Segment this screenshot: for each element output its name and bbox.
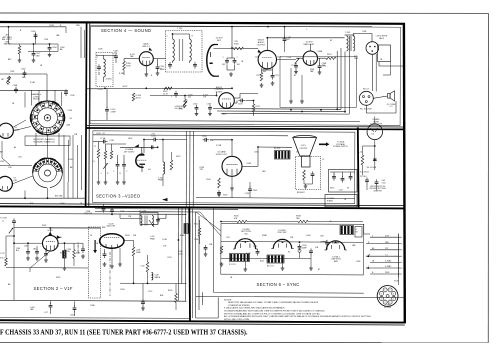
svg-text:2: 2 <box>389 302 390 304</box>
agc dashed box right <box>89 227 101 298</box>
junction dots right strip <box>374 145 376 147</box>
second small box below right box <box>325 195 357 207</box>
capacitor C140 <box>248 186 252 193</box>
capacitor C151a <box>35 249 39 256</box>
wire strip down to plug <box>398 278 400 286</box>
capacitor C1H8 <box>12 218 16 225</box>
wire V103 cath <box>234 102 237 104</box>
svg-text:B144: B144 <box>260 261 264 263</box>
divider above VIF and SYNC sections (double horizontal) <box>0 204 405 209</box>
sound section inner box <box>90 26 401 126</box>
wire to T106 box <box>120 217 140 219</box>
wire right strip bottom <box>366 184 368 190</box>
switch S1 terminal stubs <box>38 90 40 103</box>
ratio detector enclosure box <box>280 57 357 108</box>
wire video y147 rail <box>120 146 158 148</box>
wire <box>320 241 327 242</box>
svg-text:SECTION 4 — SOUND: SECTION 4 — SOUND <box>101 28 151 33</box>
svg-text:C1B1: C1B1 <box>254 152 259 154</box>
svg-text:B2 0.7%: B2 0.7% <box>267 266 274 268</box>
wire sound right bus <box>379 65 404 67</box>
wire V2 to S2 <box>12 176 32 184</box>
svg-text:C144: C144 <box>253 246 257 248</box>
box T106 vif discriminator <box>140 213 158 225</box>
notes text block <box>224 299 372 321</box>
wire V105 connections <box>309 44 311 51</box>
terminal strip rows <box>366 235 399 274</box>
tuner bottom wire <box>0 197 86 199</box>
svg-text:C163: C163 <box>255 57 259 59</box>
svg-text:4BBLA: 4BBLA <box>155 276 161 279</box>
svg-text:VOLTAGES MEASURED W1TH VACUUM: VOLTAGES MEASURED W1TH VACUUM TUBE VOLTM… <box>224 310 325 313</box>
svg-text:C169: C169 <box>238 103 243 105</box>
svg-text:B1: B1 <box>103 133 105 135</box>
svg-text:T 102: T 102 <box>177 28 183 30</box>
svg-text:L109: L109 <box>141 266 145 268</box>
wire <box>312 178 314 184</box>
svg-text:OUTPUT: OUTPUT <box>257 44 266 46</box>
ground CRT <box>304 184 308 188</box>
wire R165 to V104 grid <box>244 48 259 50</box>
tube V101 6AU6 sound IF <box>139 52 153 66</box>
svg-text:C1B2: C1B2 <box>194 239 198 241</box>
wire <box>175 303 177 311</box>
wire V109 chain down <box>133 256 135 283</box>
T102 secondary coil <box>190 39 192 61</box>
wire <box>74 312 76 316</box>
ground R tuner <box>18 58 22 62</box>
resistor R181 <box>73 250 76 259</box>
ground C163/C164 <box>229 72 233 76</box>
svg-text:VOL 2N1-B: VOL 2N1-B <box>360 172 369 174</box>
svg-text:6AL5 DET: 6AL5 DET <box>107 225 117 228</box>
svg-text:2: 2 <box>401 243 402 245</box>
svg-text:4: 4 <box>401 256 402 258</box>
capacitor C165 <box>195 105 199 112</box>
capacitor C150a <box>26 249 30 256</box>
arrow right of V108 <box>57 235 61 239</box>
svg-text:R1B2: R1B2 <box>42 225 46 227</box>
sound B+ vertical bus wires <box>336 51 338 109</box>
wire to 2nd video tube <box>210 139 232 141</box>
svg-text:BB7: BB7 <box>8 59 11 61</box>
resistor R171 <box>252 104 255 112</box>
CRT socket dashed box <box>296 157 321 190</box>
capacitor C150 <box>156 64 160 71</box>
wire V103 out right <box>246 100 254 102</box>
svg-text:POWER SUPPLY: POWER SUPPLY <box>333 146 349 148</box>
svg-text:W: W <box>356 231 358 233</box>
resistor R140 damping <box>170 160 173 170</box>
ground V107 <box>230 186 234 190</box>
capacitor C152a <box>44 251 48 258</box>
resistor R1B3 <box>104 151 107 159</box>
resistor R165 <box>234 47 244 50</box>
capacitor C148 tuner <box>34 32 38 39</box>
bus wire 3 <box>221 112 349 115</box>
arrow in dashed box <box>93 240 97 253</box>
electrolytic C163 <box>225 58 229 65</box>
cap in T106 <box>156 217 160 224</box>
capacitor C167 <box>105 107 109 114</box>
junction dots sound <box>231 47 233 49</box>
plate arrow above V108 <box>48 232 52 236</box>
fine tuning wire <box>0 73 47 75</box>
AGC keyed hatch block <box>184 224 190 234</box>
svg-text:7: 7 <box>401 274 402 276</box>
label C151 cap <box>174 91 178 98</box>
capacitor C148 <box>114 53 118 60</box>
volume pot R168 <box>183 101 187 107</box>
svg-text:L-1B1: L-1B1 <box>109 140 114 142</box>
svg-text:3: 3 <box>401 250 402 252</box>
wire plate V106 up <box>143 140 145 154</box>
cap in right box 3 <box>349 174 353 181</box>
coil2 in T106 <box>152 216 154 226</box>
ground C149 <box>48 53 52 57</box>
tube V107 2nd video <box>222 156 242 176</box>
svg-text:C172: C172 <box>291 65 296 67</box>
junction dot top rail <box>231 26 233 28</box>
video section right border (thick vertical) <box>357 128 360 208</box>
svg-text:RATIO DET: RATIO DET <box>304 43 316 46</box>
svg-text:C1B2: C1B2 <box>10 71 14 73</box>
svg-text:7: 7 <box>389 290 390 292</box>
wire plate V101 right <box>153 58 166 60</box>
deflection socket circle <box>367 124 383 140</box>
tube V2 mixer at left edge <box>0 176 12 191</box>
cap C158b <box>141 299 145 306</box>
wire jack down second <box>375 54 377 92</box>
svg-text:5 O: 5 O <box>389 106 393 108</box>
wire det to vol pot <box>150 95 217 97</box>
wire <box>50 301 52 304</box>
wire V104 cathode <box>261 68 263 72</box>
svg-text:C166: C166 <box>207 104 212 106</box>
resistor R tuner <box>18 46 21 54</box>
wire fine tune down <box>46 74 48 101</box>
ground C171 <box>271 81 275 85</box>
wire <box>50 309 52 314</box>
wire V108 plate up <box>49 228 51 235</box>
svg-text:8: 8 <box>393 293 394 295</box>
capacitor C129 input <box>101 140 108 144</box>
svg-text:ALL VOLTAGES MEASURED W1TH A S: ALL VOLTAGES MEASURED W1TH A SL1GHT LOAD… <box>224 315 372 318</box>
svg-text:BB7 1BB: BB7 1BB <box>55 196 63 198</box>
junction dot tuner top <box>8 26 10 28</box>
sync section outer box <box>213 209 363 294</box>
cap C190 <box>373 156 377 163</box>
VIF top rail wire <box>0 213 187 216</box>
wire <box>244 262 246 268</box>
wire <box>117 168 119 180</box>
svg-text:C140: C140 <box>245 193 250 195</box>
resistor in CRT box <box>303 170 306 180</box>
svg-text:PD SOB: PD SOB <box>384 307 392 309</box>
svg-text:NOTES:: NOTES: <box>224 299 232 301</box>
svg-text:R 5.27%: R 5.27% <box>229 264 236 266</box>
svg-text:SECTION 6 – SYNC: SECTION 6 – SYNC <box>257 282 300 287</box>
wire <box>303 180 305 184</box>
junction dots video <box>162 139 164 141</box>
capacitor C172 <box>294 63 298 70</box>
speaker jack J101 circle <box>366 42 379 55</box>
svg-text:R1B4: R1B4 <box>60 253 64 255</box>
schematic top border (thick) <box>0 22 405 24</box>
svg-text:B+: B+ <box>330 221 332 223</box>
svg-text:3: 3 <box>384 302 385 304</box>
svg-text:C1B7: C1B7 <box>0 161 4 163</box>
svg-text:RES1STOR VALUES ARE 1N OHMS, 1: RES1STOR VALUES ARE 1N OHMS, 1/2 WATT, A… <box>228 301 319 304</box>
resistor R176 <box>326 57 336 60</box>
capacitor C158 in T102 <box>168 62 172 69</box>
svg-text:C1B0: C1B0 <box>160 69 164 71</box>
svg-text:R1B7: R1B7 <box>176 156 181 158</box>
speaker cone symbol <box>388 91 395 101</box>
svg-text:230V: 230V <box>385 272 390 274</box>
capacitor C153 row <box>14 87 18 94</box>
coil L12B <box>152 273 153 281</box>
dash-dot shield line VIF <box>109 252 111 296</box>
ground C165 <box>195 112 199 116</box>
cap in right box 1 <box>332 174 336 181</box>
junction dots on bus <box>290 109 292 111</box>
svg-text:250V: 250V <box>223 195 228 197</box>
svg-text:C10B: C10B <box>49 25 54 27</box>
arrow on y147 rail <box>134 144 139 147</box>
svg-text:L2: L2 <box>2 221 4 223</box>
small box right of video <box>329 170 358 193</box>
divider sound/video (double horizontal) <box>86 126 404 130</box>
pot arrow between tubes <box>295 58 299 64</box>
capacitor C146 in T101 <box>97 64 101 71</box>
core T106 <box>144 216 146 226</box>
capacitor C174 <box>318 63 322 70</box>
page right border line <box>487 13 489 342</box>
wire video bottom rail <box>196 198 355 199</box>
electrolytic C160 with polarity <box>298 244 302 251</box>
svg-text:6: 6 <box>401 268 402 270</box>
wire input to grid <box>13 225 15 300</box>
cap left sync <box>204 245 208 252</box>
coil L100 inside T101 <box>104 59 106 77</box>
wire VIF rail 267 <box>6 267 88 270</box>
schematic bottom border (thick) <box>0 320 405 322</box>
junction dot y147 <box>157 146 159 148</box>
svg-text:C139: C139 <box>202 136 207 138</box>
svg-text:CRT/PIX: CRT/PIX <box>300 148 309 150</box>
wires right box <box>333 172 335 175</box>
wire V104 grid left <box>232 47 244 50</box>
resistor R182 <box>5 258 8 266</box>
svg-text:4.5MC: 4.5MC <box>106 79 112 81</box>
svg-text:R-1B2: R-1B2 <box>119 73 124 75</box>
long wires V105 to ground <box>290 68 292 99</box>
tuner mid wire row <box>0 164 32 166</box>
svg-text:C165: C165 <box>193 104 198 106</box>
cathode resistor R141 <box>218 178 221 188</box>
ground C172 <box>294 70 298 74</box>
svg-text:L117: L117 <box>44 312 48 314</box>
sync long feed wire 2 <box>95 210 200 213</box>
terminal strip right bus <box>398 234 400 278</box>
terminal strip ticks <box>399 237 402 274</box>
svg-text:25.7K: 25.7K <box>163 93 169 95</box>
ground V105 left <box>289 99 293 103</box>
svg-text:1B7: 1B7 <box>1 79 4 81</box>
sync long feed wire 1 <box>95 208 238 211</box>
svg-text:C1B0: C1B0 <box>24 246 28 248</box>
transformer T102 shield (dashed box) <box>166 31 203 73</box>
coil in T106 <box>141 216 143 226</box>
capacitor C171 cathode bypass <box>271 73 275 80</box>
wires VIF mid <box>27 243 29 250</box>
svg-text:1: 1 <box>401 237 402 239</box>
svg-text:L-100: L-100 <box>98 89 104 91</box>
bus wire 1 <box>213 108 341 111</box>
svg-text:R1B5: R1B5 <box>76 253 80 255</box>
junction dots sync <box>244 241 246 243</box>
svg-text:C1B2: C1B2 <box>21 69 26 71</box>
capacitor C147 <box>32 51 36 58</box>
diagonal wire under V108 <box>30 251 50 268</box>
pot R tuner AGC <box>6 77 10 83</box>
capacitor C152 fine <box>23 70 27 77</box>
rotary switch S2 (rear wafer) <box>33 158 63 188</box>
svg-text:R1: R1 <box>347 188 349 190</box>
tube V104 6K6 audio output <box>258 50 276 68</box>
svg-text:C1 6A: C1 6A <box>100 137 106 140</box>
svg-text:4: 4 <box>381 298 382 300</box>
tube V1 RF amp at left edge <box>0 123 13 138</box>
capacitor C166 <box>208 105 212 112</box>
wire <box>123 168 125 180</box>
svg-text:C167: C167 <box>339 190 343 192</box>
wire jack down <box>371 54 373 91</box>
capacitor C154 bottom <box>49 303 53 310</box>
capacitor C139 <box>202 138 209 142</box>
accessory plug socket <box>377 286 398 307</box>
contrast pot <box>103 163 107 169</box>
svg-text:C1B2: C1B2 <box>356 261 360 263</box>
svg-text:.27MF: .27MF <box>110 111 116 113</box>
T102 primary coil <box>173 39 175 61</box>
ground left sync <box>204 252 208 256</box>
junction dot rail <box>145 87 147 89</box>
svg-text:PEAK: PEAK <box>150 237 156 240</box>
wire grid bus to V101 <box>115 60 117 63</box>
sync diagonal feed <box>196 212 221 231</box>
svg-text:407V: 407V <box>123 86 128 88</box>
svg-text:GRN: GRN <box>354 58 359 60</box>
svg-text:C1B4: C1B4 <box>70 315 75 317</box>
hatched resistor pack C (dark) <box>340 226 354 235</box>
cap in right box 2 <box>341 176 345 183</box>
svg-text:4TM V1F: 4TM V1F <box>84 213 93 215</box>
capacitor C169 <box>238 99 245 103</box>
arrow on video bottom rail <box>162 198 168 201</box>
plate arrow V104 <box>258 50 262 54</box>
wire <box>231 176 233 186</box>
sync section inner box <box>221 224 364 275</box>
ground row video left <box>97 180 101 184</box>
svg-text:P1LOT: P1LOT <box>363 89 370 91</box>
wire <box>326 246 328 250</box>
wire grid V108 <box>14 242 43 244</box>
svg-text:C2: C2 <box>322 159 324 161</box>
svg-text:DET: DET <box>217 40 222 42</box>
svg-text:VOLUME: VOLUME <box>175 108 183 110</box>
svg-text:250V: 250V <box>253 190 258 192</box>
dots bottom tuner <box>47 197 49 199</box>
wires T102 connections <box>172 34 174 39</box>
svg-text:R170: R170 <box>257 75 262 77</box>
svg-text:R176: R176 <box>327 54 332 56</box>
svg-text:F CHASSIS 33 AND 37, RUN 11 (S: F CHASSIS 33 AND 37, RUN 11 (SEE TUNER P… <box>0 329 248 337</box>
svg-text:B0ARD: B0ARD <box>327 199 334 202</box>
capacitor C1B2 near rail <box>283 36 287 43</box>
svg-text:B47: B47 <box>0 152 3 154</box>
svg-text:470K: 470K <box>126 65 131 67</box>
resistor R149 top <box>298 220 308 223</box>
output transformer T103 <box>345 35 355 51</box>
resistor R150 <box>123 61 126 70</box>
sound top rail wire <box>91 26 372 28</box>
svg-text:SECTION 3 –V1DEO: SECTION 3 –V1DEO <box>96 193 141 198</box>
cap C161 <box>309 248 313 255</box>
svg-text:PEAK: PEAK <box>136 251 142 254</box>
tube V103 6AV6 AF amp <box>219 93 235 109</box>
svg-text:C159: C159 <box>148 291 152 293</box>
svg-text:C136: C136 <box>151 136 156 138</box>
wire <box>142 284 144 301</box>
cap C192 <box>375 179 379 186</box>
svg-text:R165: R165 <box>330 188 334 190</box>
cap C191 <box>365 177 369 184</box>
wire mid rail VIF <box>120 282 187 285</box>
capacitor C1B2 <box>116 162 120 169</box>
wire plate V107 right <box>242 165 258 167</box>
svg-text:6: 6 <box>384 290 385 292</box>
wire <box>82 243 84 247</box>
sync bottom inner wire <box>221 257 311 260</box>
wire links down <box>231 191 233 198</box>
diagonal in T106 box <box>149 220 154 227</box>
svg-text:R1 47%: R1 47% <box>274 148 281 150</box>
wafer label box <box>25 136 70 145</box>
svg-text:TO TUN: TO TUN <box>0 218 7 220</box>
resistor R163 dropping <box>132 93 135 101</box>
video section inner box <box>93 131 355 204</box>
sync outer box second bottom line <box>196 296 404 297</box>
ground for C150 <box>156 71 160 75</box>
svg-text:B7: B7 <box>318 269 320 271</box>
svg-text:M1 (REAR) CHANNEL 2B: M1 (REAR) CHANNEL 2B <box>34 141 56 144</box>
dot mesh <box>33 43 35 45</box>
resistor R180 <box>63 250 66 259</box>
sync diagonal feed 2 <box>200 212 221 236</box>
wire sync top <box>221 221 237 223</box>
capacitor C1B3 <box>122 162 126 169</box>
svg-text:R171: R171 <box>256 106 261 108</box>
caps above V109 <box>102 206 106 213</box>
cap C162 <box>256 249 260 256</box>
arrowheads terminal strip <box>366 255 369 269</box>
tube V108 3rd VIF (bold) <box>43 235 59 251</box>
svg-text:#104: #104 <box>382 182 386 184</box>
CRT funnel symbol <box>293 136 317 156</box>
wire tuner row 44 <box>8 27 10 44</box>
